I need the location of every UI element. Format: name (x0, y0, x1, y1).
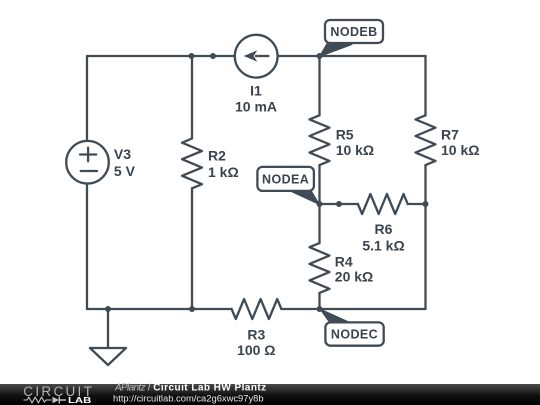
wire right branch R7 down to bottom (424, 165, 426, 309)
wire R2 branch top lead (191, 56, 193, 139)
resistor R2 zigzag (182, 139, 202, 189)
svg-text:R4: R4 (335, 254, 353, 270)
resistor R7 zigzag (416, 115, 436, 165)
svg-text:V3: V3 (114, 146, 131, 162)
I1 arrow shaft (255, 55, 269, 57)
V3 plus sign (80, 148, 96, 162)
svg-text:10 mA: 10 mA (235, 99, 277, 115)
svg-text:NODEA: NODEA (262, 172, 309, 186)
wire right branch top lead to R7 (424, 56, 426, 115)
V3 minus sign (81, 170, 97, 172)
node NODEC pointer wedge (320, 309, 352, 324)
junction dot NODEA (317, 201, 323, 207)
svg-text:R2: R2 (208, 147, 226, 163)
junction dot R2 top (189, 53, 195, 59)
svg-text:NODEB: NODEB (330, 25, 377, 39)
footer logo diode (53, 397, 60, 403)
junction dot NODEC (317, 306, 323, 312)
wire left vertical branch (through V3) (86, 56, 88, 309)
svg-text:1 kΩ: 1 kΩ (208, 164, 239, 180)
wire NODEA to R6 left (320, 203, 358, 205)
wire middle branch NODEB to R5 (318, 56, 320, 115)
wire top horizontal from left branch to right branch (87, 55, 426, 57)
voltage source V3 circle (66, 141, 109, 184)
wire R2 branch bottom lead (191, 188, 193, 309)
footer logo resistor squiggle (24, 397, 52, 403)
node NODEB pointer wedge (320, 44, 353, 57)
node NODEB label box (325, 20, 383, 43)
resistor R5 zigzag (310, 115, 330, 165)
wire R6 right to right branch (408, 203, 426, 205)
wire middle branch R4 to NODEC (318, 293, 320, 309)
node NODEA pointer wedge (288, 190, 320, 205)
svg-text:100 Ω: 100 Ω (237, 342, 275, 358)
junction dot R6 left lead (336, 201, 342, 207)
ground symbol triangle (90, 348, 126, 365)
wire bottom horizontal right of R3 (281, 308, 425, 310)
node NODEC label box (325, 322, 383, 345)
svg-text:5 V: 5 V (114, 163, 136, 179)
svg-text:R5: R5 (336, 126, 354, 142)
svg-text:20 kΩ: 20 kΩ (335, 269, 373, 285)
junction dot ground (105, 306, 111, 312)
resistor R6 zigzag (358, 194, 408, 214)
ground stem wire (107, 309, 109, 348)
junction dot I1 left lead (210, 53, 216, 59)
svg-text:10 kΩ: 10 kΩ (336, 142, 374, 158)
current source I1 circle (235, 35, 278, 78)
wire middle branch R5 to R4 through NODEA (318, 165, 320, 243)
resistor R3 zigzag (232, 299, 282, 319)
svg-text:I1: I1 (250, 83, 262, 99)
junction dot R6 right / right branch (423, 201, 429, 207)
junction dot R2 bottom (189, 306, 195, 312)
svg-text:R3: R3 (247, 327, 265, 343)
resistor R4 zigzag (310, 243, 330, 293)
svg-text:http://circuitlab.com/ca2g6xwc: http://circuitlab.com/ca2g6xwc97y8b (113, 393, 264, 404)
svg-text:10 kΩ: 10 kΩ (441, 142, 479, 158)
svg-text:5.1 kΩ: 5.1 kΩ (362, 237, 404, 253)
svg-text:LAB: LAB (68, 396, 92, 405)
junction dot NODEB (317, 53, 323, 59)
svg-text:R6: R6 (375, 221, 393, 237)
node NODEA label box (257, 167, 314, 191)
svg-text:R7: R7 (441, 126, 459, 142)
wire bottom horizontal left of R3 (87, 308, 232, 310)
I1 arrow head (244, 50, 258, 61)
svg-text:NODEC: NODEC (331, 328, 378, 342)
